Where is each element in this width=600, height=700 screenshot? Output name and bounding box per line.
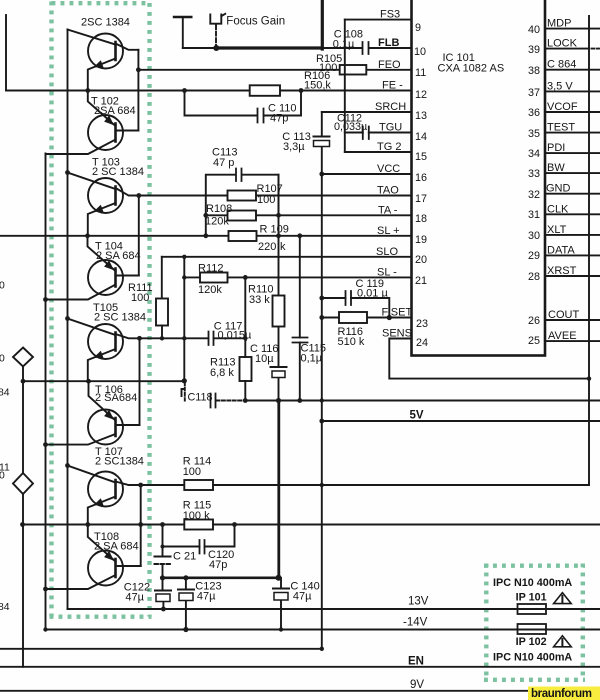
svg-text:23: 23 <box>416 318 428 330</box>
svg-text:120k: 120k <box>198 284 222 296</box>
wire: FLB thick segment <box>216 0 322 49</box>
svg-text:6,8 k: 6,8 k <box>210 367 234 379</box>
fuse IP102 <box>518 624 547 634</box>
svg-text:16: 16 <box>415 172 427 184</box>
vertical: C115 branch from SL+ down to rail <box>299 236 301 401</box>
svg-text:FLB: FLB <box>378 37 399 49</box>
svg-text:Focus Gain: Focus Gain <box>226 16 285 28</box>
resistor R112 120k <box>200 273 228 283</box>
svg-text:BW: BW <box>547 162 565 174</box>
wire: FEO pin 11 net <box>138 69 411 71</box>
svg-text:C 21: C 21 <box>173 551 196 563</box>
capacitor C21 (trimmer, dashed lower plate) <box>155 556 171 558</box>
svg-text:33 k: 33 k <box>249 294 270 306</box>
svg-text:GND: GND <box>546 183 571 195</box>
wire: SLO bend down to R111 <box>161 257 163 299</box>
capacitor C113 47p loop over R107/R108 <box>206 175 279 236</box>
svg-text:5V: 5V <box>410 410 424 422</box>
op-amp / servo IC U101 body (CXA1082AS) <box>412 0 546 356</box>
svg-text:COUT: COUT <box>548 309 579 321</box>
IC right pin labels <box>546 18 579 343</box>
transistor T101 (2SC1384, NPN) <box>68 30 139 91</box>
svg-text:120k: 120k <box>205 216 229 228</box>
EN line <box>0 666 600 668</box>
svg-text:SET: SET <box>391 307 413 319</box>
svg-text:VCC: VCC <box>377 163 400 175</box>
svg-text:IPC N10 400mA: IPC N10 400mA <box>493 652 572 664</box>
13V power rail <box>68 608 600 610</box>
highlight box (green dashed) around transistor column <box>50 2 152 617</box>
resistor R114 100 <box>184 480 213 490</box>
wire: SENS pin 24 drop under IC <box>389 339 589 379</box>
resistor R106 150k (on FE- line) <box>250 85 280 96</box>
wire: FSET pin 23 net <box>322 317 412 319</box>
transistor T104 (2SA684, PNP) <box>46 236 139 300</box>
svg-text:SL +: SL + <box>377 225 400 237</box>
fuse IP101 <box>518 604 547 614</box>
resistor R111 100 (vertical) <box>156 299 168 326</box>
svg-text:2SC 1384: 2SC 1384 <box>81 17 130 29</box>
wire: SL+ line (pin 19 net) <box>0 235 412 237</box>
svg-text:SLO: SLO <box>376 246 398 258</box>
svg-text:AVEE: AVEE <box>548 330 577 342</box>
test point diamond 2 <box>13 473 33 494</box>
resistor R108 120k <box>228 211 257 221</box>
capacitor C112 0.033u <box>363 127 369 140</box>
svg-text:CXA 1082 AS: CXA 1082 AS <box>438 63 505 75</box>
svg-text:0: 0 <box>0 281 5 292</box>
svg-text:MDP: MDP <box>547 18 571 30</box>
electrolytic capacitor C122 47u <box>162 578 165 609</box>
svg-text:3,3µ: 3,3µ <box>283 141 305 153</box>
svg-text:2 SC1384: 2 SC1384 <box>95 456 144 468</box>
svg-text:C118: C118 <box>188 392 213 404</box>
resistor R110 33k (vertical) <box>273 296 285 327</box>
capacitor C110 47p loop across R106 <box>185 91 302 116</box>
svg-text:19: 19 <box>415 234 427 246</box>
svg-text:84: 84 <box>0 602 10 613</box>
svg-text:9: 9 <box>415 22 421 34</box>
heavy junction line above bottom capacitors <box>163 576 279 579</box>
svg-text:33: 33 <box>528 168 540 180</box>
wire: FS3 vertical link down to TGU/TG2 <box>344 20 346 152</box>
watermark <box>528 687 600 700</box>
svg-text:2SA 684: 2SA 684 <box>94 105 136 117</box>
wire: TGU pin 14 stub with C112 <box>345 132 412 134</box>
wire: VCC pin 16 stub <box>322 173 412 175</box>
svg-text:IP 101: IP 101 <box>516 592 547 604</box>
svg-text:47p: 47p <box>209 559 227 571</box>
svg-text:35: 35 <box>528 128 540 140</box>
unlabeled bus line <box>0 648 322 650</box>
svg-text:100: 100 <box>131 292 149 304</box>
wire: R115 net line across page <box>23 524 600 526</box>
svg-text:30: 30 <box>528 230 540 242</box>
wire: R114/SENS return line <box>141 484 589 485</box>
svg-text:3,5 V: 3,5 V <box>547 80 573 92</box>
terminal T-bar feeding FLB <box>174 16 191 18</box>
svg-text:CLK: CLK <box>547 203 569 215</box>
svg-text:braunforum: braunforum <box>531 688 592 700</box>
svg-text:34: 34 <box>528 148 540 160</box>
svg-text:26: 26 <box>528 315 540 327</box>
transistor T105 (2SC1384, NPN) <box>68 319 140 382</box>
svg-text:TGU: TGU <box>379 122 402 134</box>
resistor R107 100 <box>228 191 257 201</box>
capacitor C108 0.1u <box>363 42 369 54</box>
wire: C117 line from T105 collector to R113 <box>140 337 246 339</box>
electrolytic capacitor C123 47u <box>185 578 187 630</box>
svg-text:0: 0 <box>0 354 5 365</box>
svg-text:100 k: 100 k <box>183 510 210 522</box>
svg-text:TEST: TEST <box>547 122 575 134</box>
wire: main vertical net x322 (VCC node down to bottom bus) <box>321 174 323 649</box>
switch jumper icon (Focus Gain) <box>210 14 225 24</box>
dashed link from switch to FLB line <box>215 25 217 48</box>
svg-text:FEO: FEO <box>378 59 401 71</box>
wire: diamond net vertical at page left <box>22 366 24 667</box>
wire: FE- line (pin 12 net) <box>6 90 412 92</box>
wire: SRCH pin 13 net <box>322 111 412 113</box>
wire: TAO pin 17 net <box>139 195 412 197</box>
svg-text:28: 28 <box>528 271 540 283</box>
vertical: R110/C116 branch from C113 loop down to rail <box>278 175 280 401</box>
svg-text:IP 102: IP 102 <box>516 636 547 648</box>
svg-text:TAO: TAO <box>377 185 399 197</box>
svg-text:25: 25 <box>528 335 540 347</box>
IC right pin numbers <box>528 24 540 347</box>
svg-text:0,1µ: 0,1µ <box>301 353 323 365</box>
IC left pin stubs labels <box>375 9 412 340</box>
svg-text:TA -: TA - <box>378 204 398 216</box>
-14V power rail <box>46 629 600 631</box>
highlight box (green dashed) around IPC fuses <box>484 564 585 681</box>
svg-text:47µ: 47µ <box>125 592 144 604</box>
wire: SLO pin 20 net <box>162 256 412 258</box>
svg-text:32: 32 <box>528 189 540 201</box>
svg-text:11: 11 <box>415 67 426 79</box>
node: left vertical bus of PNP collectors <box>45 154 47 630</box>
resistor R109 220k (on SL+ line) <box>229 231 257 241</box>
ground/common rail under network <box>245 400 600 402</box>
warning triangle 1 <box>554 593 572 604</box>
svg-text:R108: R108 <box>206 203 232 215</box>
svg-text:37: 37 <box>528 87 540 99</box>
resistor R116 510k <box>339 312 367 323</box>
wire: FS3 pin 9 stub <box>345 19 412 21</box>
svg-text:10µ: 10µ <box>255 353 274 365</box>
svg-text:15: 15 <box>415 151 427 163</box>
svg-text:47µ: 47µ <box>293 591 312 603</box>
svg-text:39: 39 <box>528 44 540 56</box>
svg-text:R 109: R 109 <box>260 224 289 236</box>
svg-text:9V: 9V <box>410 679 424 691</box>
svg-text:SRCH: SRCH <box>375 101 406 113</box>
svg-text:84: 84 <box>0 388 10 399</box>
svg-text:38: 38 <box>528 65 540 77</box>
IC left pin numbers <box>414 22 428 349</box>
svg-text:13V: 13V <box>408 596 429 608</box>
resistor R105 100 <box>340 65 367 75</box>
transistor T102 (2SA684, PNP) <box>46 91 139 155</box>
svg-text:220: 220 <box>258 241 276 253</box>
svg-text:150,k: 150,k <box>304 80 331 92</box>
svg-text:R112: R112 <box>198 263 223 275</box>
wire: T101 collector to FEO node, down to T102 base <box>137 50 139 131</box>
svg-text:LOCK: LOCK <box>547 38 578 50</box>
svg-text:SL -: SL - <box>377 266 397 278</box>
svg-text:0,01 µ: 0,01 µ <box>357 288 388 300</box>
svg-text:100: 100 <box>183 466 201 478</box>
svg-text:47µ: 47µ <box>197 591 216 603</box>
svg-text:k: k <box>280 241 286 253</box>
svg-text:2 SA 684: 2 SA 684 <box>96 250 141 262</box>
resistor R113 6.8k (vertical) <box>240 357 252 381</box>
svg-text:FS3: FS3 <box>380 9 400 21</box>
svg-text:20: 20 <box>415 254 427 266</box>
svg-text:-14V: -14V <box>403 617 428 629</box>
electrolytic capacitor C113 3.3u on SRCH drop <box>321 112 323 174</box>
wire: T107 collector node down to T108 base <box>140 485 142 566</box>
svg-text:PDI: PDI <box>547 142 565 154</box>
svg-text:EN: EN <box>408 656 424 668</box>
capacitor C118 (dashed option part) <box>184 382 186 401</box>
wire: 5V line <box>322 420 600 422</box>
svg-text:40: 40 <box>528 24 540 36</box>
svg-text:2 SA 684: 2 SA 684 <box>94 541 139 553</box>
svg-text:C 864: C 864 <box>547 59 576 71</box>
svg-text:SENS: SENS <box>382 328 412 340</box>
svg-text:24: 24 <box>416 337 428 349</box>
capacitor C120 47p loop with C21 branch <box>163 525 235 557</box>
wire: TA- pin 18 net <box>206 214 412 216</box>
electrolytic capacitor C140 47u <box>280 578 282 630</box>
svg-text:VCOF: VCOF <box>547 101 578 113</box>
capacitor C115 0.1u <box>293 338 308 343</box>
wire: FE- left bend at page edge <box>5 15 7 91</box>
wire: T105 collector node down to T106 base <box>139 338 141 425</box>
wire: right vertical bus x589 <box>588 16 590 485</box>
capacitor C119 0.01u loop <box>322 298 390 318</box>
node: left vertical bus of NPN bases, bends into 13V rail <box>67 30 69 610</box>
svg-text:2 SC 1384: 2 SC 1384 <box>94 312 146 324</box>
electrolytic capacitor C116 10u <box>271 366 287 368</box>
transistor T107 (2SC1384, NPN) <box>68 466 141 525</box>
svg-text:FE -: FE - <box>382 80 403 92</box>
wire: T103 collector node down to T104 base <box>138 196 140 276</box>
svg-text:XRST: XRST <box>547 265 577 277</box>
capacitor C117 0.015u <box>209 332 214 346</box>
transistor T106 (2SA684, PNP) <box>46 381 140 444</box>
warning triangle 2 <box>554 636 572 647</box>
wire: R111 bottom to T105 collector node <box>161 326 163 339</box>
page-edge label fragments <box>0 281 10 614</box>
svg-text:36: 36 <box>528 107 540 119</box>
svg-text:0: 0 <box>0 471 5 482</box>
wire: R113 vertical from SL- node to ground rail <box>244 277 246 400</box>
svg-text:510 k: 510 k <box>338 336 365 348</box>
thick vertical from rail down to heavy line <box>277 401 280 578</box>
svg-text:0,1µ: 0,1µ <box>333 39 355 51</box>
transistor T103 (2SC1384, NPN) <box>68 173 139 236</box>
svg-text:17: 17 <box>415 193 427 205</box>
svg-text:13: 13 <box>415 110 427 122</box>
9V power rail <box>0 690 600 692</box>
wire: horizontal net from diamond1 to C118 node <box>23 380 184 382</box>
transistor T108 (2SA684, PNP) <box>46 525 141 590</box>
svg-text:21: 21 <box>415 275 427 287</box>
svg-text:12: 12 <box>415 89 427 101</box>
wire: vertical branch bus x184 from SLO down to C118 node <box>183 257 185 381</box>
test point diamond 1 <box>13 348 33 367</box>
svg-text:2 SC 1384: 2 SC 1384 <box>92 166 144 178</box>
svg-text:IPC N10 400mA: IPC N10 400mA <box>493 577 572 589</box>
svg-text:31: 31 <box>528 209 540 221</box>
resistor R115 100k (in R115 net line) <box>184 520 213 530</box>
svg-text:XLT: XLT <box>547 224 567 236</box>
IC right pin wires <box>545 29 600 342</box>
svg-text:10: 10 <box>414 46 426 58</box>
svg-text:14: 14 <box>415 131 427 143</box>
wire: FLB pin 10 net, thin segments <box>183 47 412 49</box>
wire: TG2 pin 15 stub <box>345 151 412 153</box>
svg-text:TG 2: TG 2 <box>377 141 401 153</box>
svg-text:2 SA684: 2 SA684 <box>95 392 137 404</box>
svg-text:29: 29 <box>528 250 540 262</box>
wire: SL- pin 21 net with R112 in series <box>184 276 411 278</box>
svg-text:DATA: DATA <box>547 244 575 256</box>
svg-text:18: 18 <box>415 213 427 225</box>
svg-text:100: 100 <box>257 194 275 206</box>
svg-text:47 p: 47 p <box>213 157 234 169</box>
svg-text:47p: 47p <box>270 113 288 125</box>
svg-text:0,033µ: 0,033µ <box>334 121 367 133</box>
